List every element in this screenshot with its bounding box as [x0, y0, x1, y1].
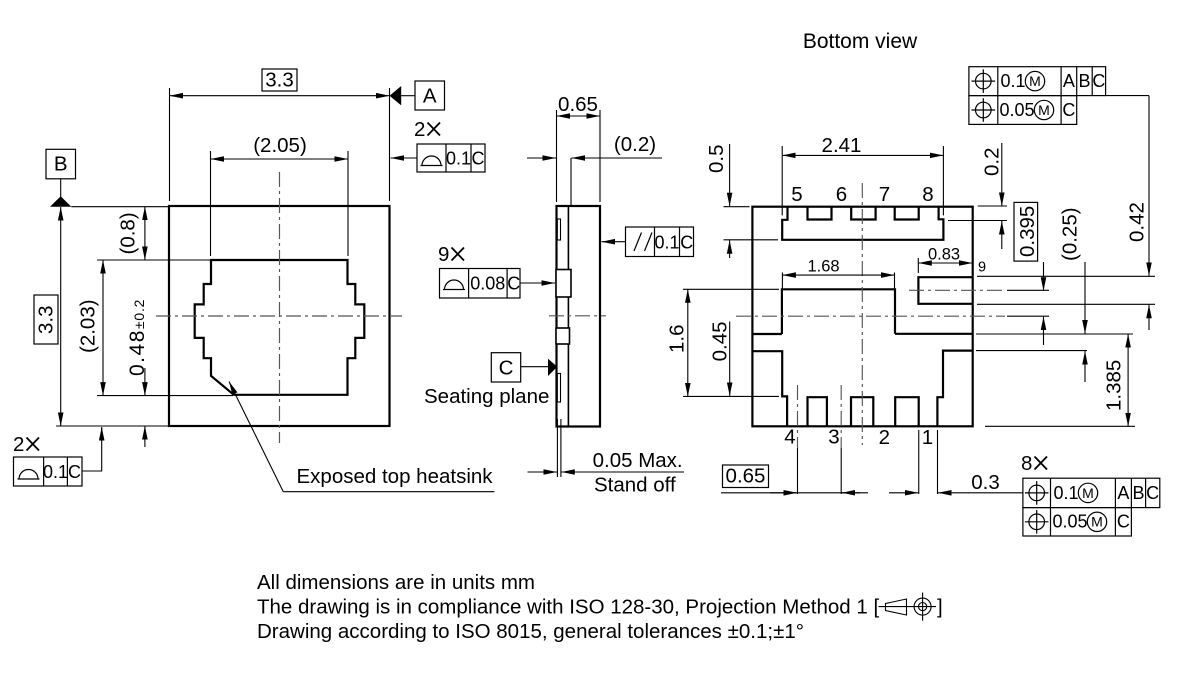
svg-text:8: 8	[922, 183, 933, 206]
svg-text:9: 9	[978, 260, 986, 276]
datum B label box	[46, 149, 76, 179]
svg-text:0.1: 0.1	[1000, 71, 1025, 91]
svg-text:0.65: 0.65	[558, 93, 598, 116]
svg-text:3: 3	[828, 426, 839, 449]
dimension (0.25) arrows	[1084, 262, 1086, 334]
datum B reference line to package corner	[71, 206, 169, 208]
svg-text:0.45: 0.45	[709, 321, 732, 361]
svg-text:C: C	[1092, 71, 1105, 91]
position frame row 2: 0.05 (M) | C	[1023, 508, 1132, 536]
svg-text:0.1: 0.1	[43, 462, 68, 482]
svg-text:0.395: 0.395	[1016, 206, 1039, 257]
package body outline (bottom view)	[752, 207, 972, 427]
svg-text:C: C	[1146, 483, 1159, 503]
svg-text:0.65: 0.65	[726, 465, 766, 488]
svg-text:7: 7	[879, 183, 890, 206]
dimension 0.395 arrows	[1043, 262, 1045, 291]
svg-text:0.42: 0.42	[1126, 202, 1149, 242]
dimension 0.65 extension lines	[556, 110, 558, 202]
side view upper lead strip	[557, 219, 560, 240]
svg-text:0.1: 0.1	[446, 149, 471, 169]
pin 4 centerline solid extension	[797, 448, 799, 494]
position frame row 2: 0.05 (M) | C	[969, 96, 1077, 125]
dimension 0.2 arrows	[1001, 143, 1003, 206]
dimension 3.3 (left) boxed value rotated	[34, 295, 58, 344]
svg-text:(0.25): (0.25)	[1059, 207, 1082, 261]
datum C stem and triangle (seating plane)	[521, 366, 548, 368]
dimension 0.2 extension lines (right of bottom view)	[978, 205, 1007, 207]
notch between pins 2 and 1	[895, 397, 919, 426]
svg-text:8: 8	[1021, 452, 1032, 475]
dimension 3.3 (top, horizontal) extension lines	[169, 88, 171, 201]
svg-text:C: C	[1117, 512, 1130, 532]
dimension 0.48+-0.2 lower line with up arrow	[144, 426, 146, 447]
notch between pins 3 and 2	[851, 397, 873, 426]
lead gap notch between pins 5 and 6	[808, 207, 832, 220]
dimension 0.83 dimension line	[918, 262, 972, 264]
svg-text:B: B	[1078, 71, 1090, 91]
svg-text:(2.05): (2.05)	[253, 134, 307, 157]
svg-text:C: C	[680, 233, 693, 253]
side view internal lead-frame line	[567, 206, 569, 427]
tab bottom extension line	[976, 350, 1087, 352]
dimension (0.8) dimension line	[144, 207, 146, 260]
dimension 1.6 dimension line	[687, 289, 689, 396]
standoff extension lines	[556, 419, 558, 477]
heatsink top extension line	[97, 259, 211, 261]
svg-text:6: 6	[836, 183, 847, 206]
pin 9 centerline solid extension	[1007, 289, 1049, 291]
dimension (2.05) dimension line	[211, 158, 349, 160]
dimension 3.3 (left, vertical) dimension line	[60, 207, 62, 426]
notch between pins 4 and 3	[808, 397, 827, 426]
dimension 0.5 arrows	[729, 144, 731, 206]
svg-text:C: C	[1062, 100, 1075, 120]
pin 9 pad outline	[918, 277, 972, 304]
svg-text:0.83: 0.83	[928, 246, 960, 264]
svg-text:5: 5	[791, 183, 802, 206]
svg-text:0.1: 0.1	[654, 233, 679, 253]
feature control frame: profile 0.1 C (top right)	[417, 144, 485, 172]
exposed top heatsink stepped outline	[195, 260, 365, 395]
svg-text:2: 2	[414, 118, 425, 141]
pin 9 centerline	[909, 289, 1006, 291]
datum B stem and triangle	[60, 179, 62, 197]
pin 3 centerline solid extension	[840, 448, 842, 494]
standoff dimension line with outside arrows	[528, 471, 558, 473]
projection method symbol: truncated cone with centerline	[886, 599, 907, 615]
svg-text:1.68: 1.68	[807, 258, 839, 276]
dimension 1.6 extension lines	[683, 288, 779, 290]
top exposed bar outline with wettable flank steps	[782, 207, 943, 240]
dimension (2.03) dimension line	[102, 260, 104, 396]
svg-text:Seating plane: Seating plane	[424, 385, 549, 408]
heatsink bottom extension line	[97, 395, 233, 397]
svg-text:0.5: 0.5	[705, 145, 728, 174]
svg-text:0.2: 0.2	[981, 148, 1004, 177]
horizontal centerline (bottom view)	[736, 315, 1005, 317]
position frame row 1: 0.1 (M) | A | B | C	[969, 67, 1106, 96]
svg-text:2: 2	[879, 426, 890, 449]
pin 4 centerline	[797, 385, 799, 448]
svg-text:(0.8): (0.8)	[117, 212, 140, 254]
svg-text:1.6: 1.6	[666, 325, 689, 354]
svg-text:B: B	[54, 153, 68, 176]
svg-text:0.05 Max.: 0.05 Max.	[593, 449, 683, 472]
leader from frame to extension line	[391, 157, 418, 159]
dimension (0.2) extension line	[570, 158, 572, 205]
svg-text:2.41: 2.41	[822, 134, 862, 157]
svg-text:M: M	[1038, 102, 1050, 118]
svg-text:A: A	[423, 85, 437, 108]
projection method symbol: circles with crosshair	[914, 593, 931, 621]
svg-text:0.3: 0.3	[971, 471, 1000, 494]
pin 9 top extension line	[977, 275, 1155, 277]
svg-text:M: M	[1029, 73, 1041, 89]
lead gap notch between pins 6 and 7	[851, 207, 875, 220]
pin 3 centerline	[840, 385, 842, 448]
leader from parallelism frame to body right edge	[602, 241, 626, 243]
horizontal centerline (top view)	[156, 315, 402, 317]
svg-text:Bottom view: Bottom view	[803, 30, 918, 53]
dimension 0.45 dimension line with down arrow	[729, 322, 731, 396]
svg-text:(2.03): (2.03)	[77, 299, 100, 353]
svg-text:Exposed top heatsink: Exposed top heatsink	[297, 465, 494, 488]
parallelism frame // 0.1 C	[626, 227, 694, 257]
svg-text:M: M	[1082, 485, 1094, 501]
feature control frame: profile 0.08 C (side view)	[440, 269, 521, 299]
leader from top-right frame to 0.42 line	[1106, 95, 1149, 97]
dimension 0.3 dimension line	[889, 492, 918, 494]
svg-text:All dimensions are in units mm: All dimensions are in units mm	[257, 571, 535, 594]
svg-text:Stand off: Stand off	[594, 474, 676, 497]
package bottom extension line	[56, 425, 169, 427]
position frame row 1: 0.1 (M) | A | B | C	[1023, 478, 1160, 507]
vertical centerline (bottom view)	[861, 183, 863, 445]
leader from bottom-left frame to package bottom	[82, 428, 102, 471]
svg-text:B: B	[1132, 483, 1144, 503]
svg-text:C: C	[499, 357, 514, 380]
svg-text:0.1: 0.1	[1053, 483, 1078, 503]
dimension 0.65 dimension line	[557, 115, 601, 117]
side view lead pad upper	[556, 270, 571, 298]
svg-text:3.3: 3.3	[265, 69, 294, 92]
svg-text:4: 4	[784, 426, 795, 449]
tab top extension line	[976, 333, 1133, 335]
svg-text:A: A	[1117, 483, 1129, 503]
dimension 0.83 extension line	[917, 258, 919, 273]
svg-text:A: A	[1063, 71, 1075, 91]
svg-text:C: C	[507, 274, 520, 294]
dimension 3.3 (top) boxed value	[262, 69, 297, 91]
feature control frame: profile 0.1 C (bottom left)	[14, 457, 83, 486]
svg-text:0.05: 0.05	[1052, 512, 1087, 532]
side view centerline	[549, 315, 606, 317]
dimension 0.395 boxed rotated	[1014, 202, 1038, 261]
svg-text:0.05: 0.05	[999, 100, 1034, 120]
svg-text:The drawing is in compliance w: The drawing is in compliance with ISO 12…	[257, 596, 879, 619]
datum A label box	[415, 81, 445, 110]
lead pitch dimension line with outside arrows	[721, 492, 860, 494]
dimension 0.3 extension lines (pin 1 width)	[918, 430, 920, 494]
dimension 0.48+-0.2 upper line with down arrow	[144, 368, 146, 396]
svg-text:C: C	[68, 462, 81, 482]
dimension 0.65 boxed (lead pitch)	[723, 465, 769, 488]
svg-text:(0.2): (0.2)	[614, 133, 656, 156]
exposed die pad outline (bottom view)	[752, 289, 972, 426]
svg-text:1.385: 1.385	[1103, 360, 1126, 411]
dimension 0.5 extension lines	[724, 206, 750, 208]
svg-text:1: 1	[922, 426, 933, 449]
svg-text:]: ]	[937, 596, 943, 619]
dimension 3.3 (top) dimension line	[170, 95, 390, 97]
dimension (2.05) extension lines	[210, 151, 212, 256]
dimension 0.42 arrows	[1148, 96, 1150, 276]
svg-text:9: 9	[438, 243, 449, 266]
package body outline (top view)	[169, 206, 390, 426]
dimension (0.2) dimension line with outside arrows	[527, 157, 556, 159]
datum A triangle	[390, 86, 402, 105]
package bottom extension line (right)	[985, 425, 1135, 427]
package centerline solid extension	[1007, 315, 1049, 317]
side view lead pad lower	[556, 328, 570, 344]
vertical centerline (top view)	[279, 172, 281, 443]
side view lower lead strip	[557, 374, 560, 403]
dimension 2.41 extension lines	[781, 146, 783, 215]
dimension 2.41 dimension line	[782, 154, 943, 156]
svg-text:2: 2	[13, 433, 24, 456]
pin 9 bottom extension line	[977, 303, 1155, 305]
dimension 1.385 dimension line	[1127, 334, 1129, 426]
dimension 1.68 dimension line	[782, 274, 894, 276]
svg-text:M: M	[1091, 514, 1103, 530]
leader from 0.08 frame to lead pad	[520, 282, 555, 284]
svg-text:3.3: 3.3	[35, 306, 58, 335]
dimension 1.68 extension lines	[781, 273, 783, 289]
side view body outline	[557, 206, 601, 427]
leader: exposed top heatsink	[229, 382, 283, 492]
svg-text:0.08: 0.08	[470, 274, 505, 294]
svg-text:Drawing according to ISO 8015,: Drawing according to ISO 8015, general t…	[257, 620, 804, 643]
svg-text:C: C	[472, 149, 485, 169]
datum C label box	[491, 353, 520, 382]
lead gap notch between pins 7 and 8	[895, 207, 919, 220]
